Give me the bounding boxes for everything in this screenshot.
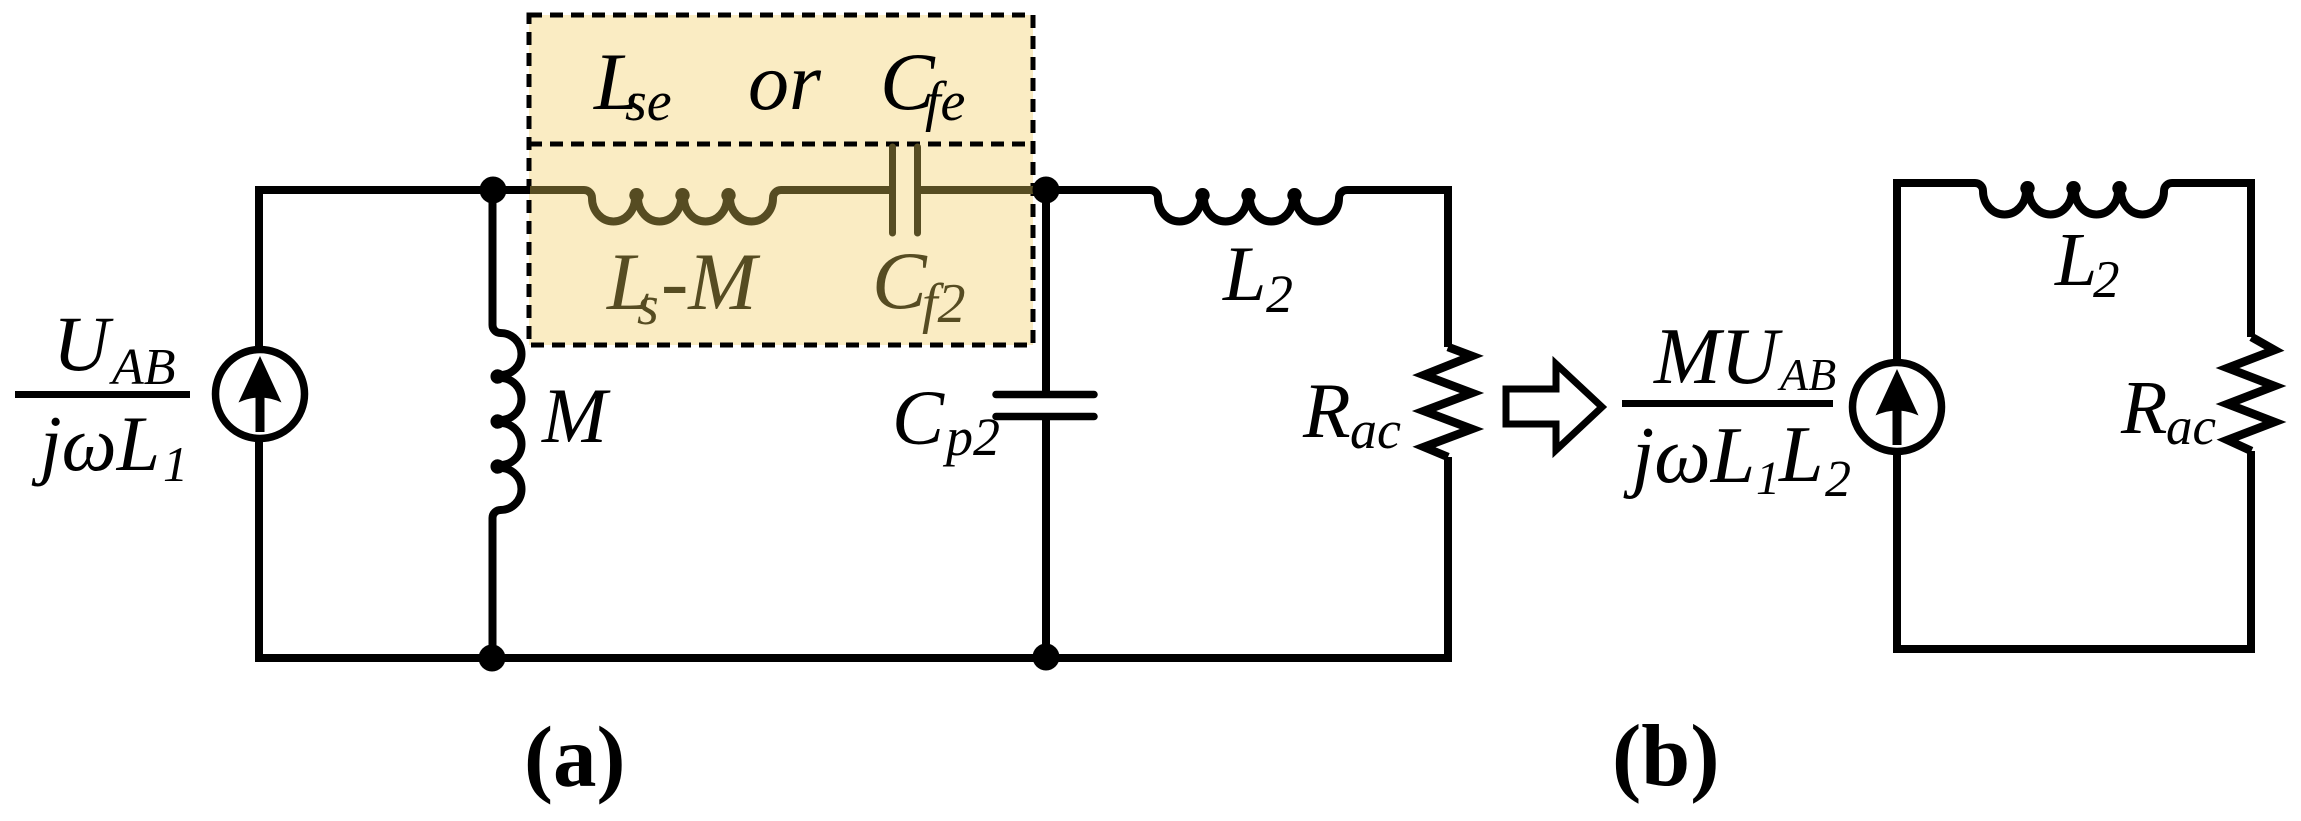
svg-text:R: R <box>1302 367 1351 454</box>
svg-text:L: L <box>1222 230 1266 317</box>
svg-text:s: s <box>637 275 659 337</box>
node (bottom of Cp2 branch) <box>1033 644 1060 671</box>
fraction MU_AB / jwL1L2 <box>1622 313 1851 508</box>
svg-text:2: 2 <box>2093 251 2120 309</box>
label Rac (a) <box>1302 367 1401 460</box>
wire: olive inside box <box>530 186 1046 194</box>
svg-text:C: C <box>892 374 945 461</box>
svg-text:2: 2 <box>1825 451 1851 508</box>
label Lse <box>593 36 672 133</box>
label Cf2 <box>872 235 966 335</box>
label Cp2 <box>892 374 1000 467</box>
svg-text:U: U <box>53 300 114 387</box>
resistor Rac (a) <box>1424 347 1472 457</box>
svg-text:AB: AB <box>1777 349 1836 400</box>
node (bottom of M branch) <box>479 645 506 672</box>
label Rac (b) <box>2120 366 2216 456</box>
label L2 (a) <box>1222 230 1293 324</box>
wire: (a) top rail left + left branch up <box>259 190 534 346</box>
svg-text:L: L <box>1778 411 1824 499</box>
circuit (b) wires <box>1897 183 2251 649</box>
svg-text:2: 2 <box>1266 264 1293 324</box>
svg-text:-M: -M <box>661 236 761 327</box>
svg-text:(a): (a) <box>524 708 625 805</box>
node A (top of M branch) <box>480 177 507 204</box>
svg-text:MU: MU <box>1653 313 1784 401</box>
inductor Ls-M (olive) <box>584 190 781 221</box>
svg-text:R: R <box>2120 366 2167 450</box>
svg-text:ac: ac <box>2166 398 2216 456</box>
wire: (a) left branch down + bottom rail + right riser <box>259 442 1448 658</box>
svg-text:1: 1 <box>1756 452 1780 505</box>
resistor Rac (b) <box>2228 337 2275 451</box>
label Ls-M <box>606 236 761 337</box>
fraction U_AB / jwL1 <box>15 300 190 492</box>
svg-text:p2: p2 <box>942 407 1000 467</box>
svg-text:f2: f2 <box>922 273 966 335</box>
svg-text:M: M <box>541 372 611 459</box>
inductor M (vertical) <box>493 190 522 658</box>
inductor L2 (b) <box>1975 183 2172 214</box>
svg-text:se: se <box>625 71 672 133</box>
svg-text:or: or <box>748 36 822 127</box>
inductor L2 (a) <box>1150 190 1347 221</box>
wire: (a) top right segment <box>1046 190 1448 347</box>
svg-text:AB: AB <box>109 339 176 396</box>
capacitor Cp2 <box>996 395 1094 417</box>
svg-text:ac: ac <box>1350 400 1401 460</box>
current source MU_AB/jwL1L2 <box>1853 363 1942 452</box>
svg-text:C: C <box>872 235 928 326</box>
current source U_AB/jwL1 <box>216 350 305 439</box>
capacitor Cf2 (olive) <box>893 147 918 233</box>
wire: Cp2 branch <box>1042 190 1050 657</box>
label Cfe <box>880 36 965 133</box>
highlight box (Lse/Cfe region) <box>529 15 1033 345</box>
node (top of Cp2 branch) <box>1033 177 1060 204</box>
label L2 (b) <box>2054 218 2120 309</box>
svg-text:(b): (b) <box>1612 708 1720 805</box>
big hollow arrow <box>1506 364 1602 450</box>
svg-text:jωL: jωL <box>1623 412 1755 500</box>
svg-text:L: L <box>2054 218 2097 302</box>
svg-text:1: 1 <box>163 436 188 492</box>
svg-text:fe: fe <box>925 71 965 133</box>
svg-text:jωL: jωL <box>31 400 160 487</box>
